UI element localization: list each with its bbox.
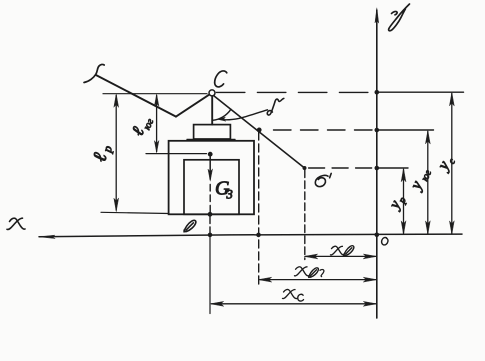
label l_p bbox=[89, 142, 115, 164]
label y_p bbox=[386, 192, 409, 214]
wire: dashed vertical below D' bbox=[304, 170, 306, 260]
pedestal base line bbox=[187, 138, 235, 140]
dimension l_p bbox=[114, 94, 119, 212]
dimension x_d bbox=[304, 254, 377, 259]
node: platform CG dot bbox=[208, 152, 213, 157]
node: jib CG dot on CD' bbox=[257, 127, 262, 132]
y-axis bbox=[375, 8, 379, 318]
pedestal rectangle bbox=[194, 125, 231, 139]
point C circle bbox=[209, 90, 215, 96]
wire: extension line left of C bbox=[103, 93, 207, 95]
dimension y_c bbox=[449, 92, 454, 234]
node: dot at D (body bottom) bbox=[208, 212, 213, 217]
svg-text:3: 3 bbox=[226, 188, 233, 202]
origin label o bbox=[382, 238, 388, 245]
G3 weight vector dashed bbox=[208, 157, 213, 214]
wire: dashed line at jib CG level bbox=[274, 129, 434, 131]
label D' bbox=[315, 173, 331, 186]
node: dots on x-axis bbox=[208, 233, 261, 238]
outer body rectangle bbox=[169, 141, 254, 215]
label x_c bbox=[283, 289, 304, 301]
mast below C bbox=[211, 96, 213, 124]
label x_d bbox=[331, 246, 354, 256]
wire: extension line at platform CG level bbox=[146, 153, 207, 155]
boom lower chord to C bbox=[176, 95, 209, 117]
line C to D' bbox=[214, 96, 305, 168]
dimension x_dg bbox=[258, 277, 377, 282]
label y_dg bbox=[407, 165, 434, 195]
boom line bbox=[96, 75, 176, 117]
wire: dashed vertical through jib CG bbox=[258, 132, 260, 285]
x-axis bbox=[39, 234, 462, 238]
label C bbox=[215, 71, 227, 87]
angle arc delta bbox=[213, 109, 232, 120]
label l_dg bbox=[128, 112, 156, 139]
node: D' corner dot bbox=[303, 166, 307, 170]
dimension l_dg bbox=[154, 94, 159, 152]
x-axis label x bbox=[7, 218, 25, 229]
wire: bottom extension line bbox=[101, 212, 169, 213]
label D bbox=[184, 220, 196, 231]
wire: vertical below axis to x_c dimension bbox=[209, 235, 211, 314]
hook at boom tip bbox=[84, 64, 104, 82]
label x_dg bbox=[295, 267, 324, 278]
label G3 bbox=[215, 178, 233, 202]
wire: dashed from D to x-axis bbox=[209, 217, 211, 236]
wire: dashed line at D' level bbox=[309, 167, 408, 169]
label delta bbox=[267, 98, 284, 115]
dimension y_p bbox=[401, 168, 406, 234]
dimension y_dg bbox=[425, 130, 430, 234]
inner body rectangle bbox=[184, 160, 239, 215]
wire: dashed line through C to y-axis bbox=[216, 91, 463, 93]
label y_c bbox=[434, 152, 458, 175]
node: dots on y-axis bbox=[375, 90, 380, 237]
y-axis label y bbox=[389, 4, 410, 31]
leader line to delta label bbox=[218, 110, 268, 121]
dimension x_c bbox=[210, 301, 377, 306]
